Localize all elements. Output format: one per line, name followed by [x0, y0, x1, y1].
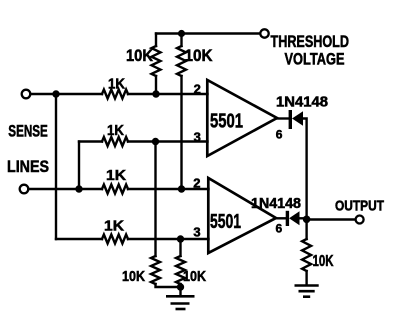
terminal OUTPUT — [356, 216, 364, 224]
resistor 10K (pin 3 lower, to ground) — [179, 239, 181, 256]
wire D1 to output node — [303, 119, 307, 220]
resistor 10K (upper right, threshold divider) — [180, 34, 182, 47]
resistor 10K (pin 3 upper, to ground) — [154, 142, 156, 257]
svg-text:5501: 5501 — [210, 111, 243, 133]
svg-text:THRESHOLD: THRESHOLD — [271, 33, 350, 51]
svg-text:3: 3 — [194, 129, 201, 144]
svg-text:1N4148: 1N4148 — [251, 196, 301, 212]
node row2 / 10K to ground — [152, 138, 159, 145]
diode D1 1N4148 (anode triangle) — [292, 111, 303, 125]
ground (bottom middle) — [166, 295, 195, 298]
resistor 1K (row 1, to pin 2 of upper comparator) — [102, 90, 128, 99]
svg-text:10K: 10K — [313, 253, 335, 270]
svg-text:10K: 10K — [185, 46, 213, 65]
wire row1 to pin 2 — [128, 93, 208, 95]
node ground join — [177, 283, 184, 290]
terminal sense line 1 — [22, 90, 31, 99]
terminal THRESHOLD VOLTAGE — [260, 29, 268, 37]
svg-text:2: 2 — [193, 175, 200, 190]
svg-text:5501: 5501 — [210, 211, 241, 233]
svg-text:10K: 10K — [126, 46, 153, 65]
resistor 1K (row 2, to pin 3 of upper comparator) — [102, 137, 128, 146]
resistor 1K (row 4, to pin 3 of lower comparator) — [102, 235, 128, 244]
svg-text:2: 2 — [194, 81, 201, 96]
wire sense2 row3 — [28, 188, 102, 190]
wire row2 corner from V2 — [79, 140, 102, 142]
svg-text:VOLTAGE: VOLTAGE — [285, 51, 345, 69]
resistor 10K (output pull, to ground) — [305, 220, 307, 240]
wire V1 vertical sense1 down to row 4 — [55, 94, 57, 239]
node row3 / V2 — [75, 185, 82, 192]
svg-text:1N4148: 1N4148 — [276, 95, 328, 111]
node row1 / left 10K — [152, 90, 159, 97]
op-amp U2 comparator 5501 (lower) — [208, 178, 276, 253]
diode D2 1N4148 (anode triangle) — [289, 211, 299, 225]
svg-text:1K: 1K — [107, 123, 124, 139]
svg-text:3: 3 — [193, 225, 200, 240]
wire row4 corner from V1 — [56, 238, 102, 240]
svg-text:1K: 1K — [108, 77, 125, 93]
diode D2 1N4148 (cathode bar) — [286, 211, 289, 226]
wire U2 output to diode D2 — [276, 217, 286, 219]
wire row2 to pin 3 — [128, 140, 208, 142]
svg-text:1K: 1K — [104, 218, 124, 234]
svg-text:OUTPUT: OUTPUT — [335, 199, 384, 215]
node output junction — [303, 216, 311, 224]
wire D2 to output node — [300, 217, 307, 219]
resistor 1K (row 3, to pin 2 of lower comparator) — [102, 185, 128, 194]
wire row3 to pin 2 — [128, 188, 209, 190]
op-amp U1 comparator 5501 (upper) — [207, 80, 277, 156]
node row4 / 10K to ground — [177, 235, 184, 242]
resistor 10K (upper left, threshold divider) — [155, 34, 157, 47]
svg-text:6: 6 — [276, 221, 283, 235]
node sense1 / V1 — [52, 90, 59, 97]
svg-text:10K: 10K — [122, 268, 145, 285]
wire row4 to pin 3 — [128, 238, 209, 240]
wire U1 output to diode D1 — [277, 117, 289, 119]
terminal sense line 2 — [20, 185, 29, 194]
svg-text:10K: 10K — [183, 268, 206, 285]
svg-text:6: 6 — [276, 128, 283, 142]
wire output node to OUTPUT terminal — [307, 218, 356, 220]
wire V2 vertical row2 down to row3 — [78, 142, 80, 190]
ground (output resistor) — [295, 284, 319, 287]
wire top rail to threshold terminal — [156, 32, 260, 34]
diode D1 1N4148 (cathode bar) — [289, 110, 292, 129]
wire V4 down to pin2 of lower comparator — [180, 76, 182, 189]
svg-text:1K: 1K — [106, 168, 126, 184]
wire sense1 to 1K row1 — [30, 93, 102, 95]
svg-text:SENSE: SENSE — [8, 123, 48, 141]
node junction top rail / right 10K — [178, 30, 185, 37]
svg-text:LINES: LINES — [7, 158, 49, 176]
node row3 / V4 — [178, 185, 185, 192]
